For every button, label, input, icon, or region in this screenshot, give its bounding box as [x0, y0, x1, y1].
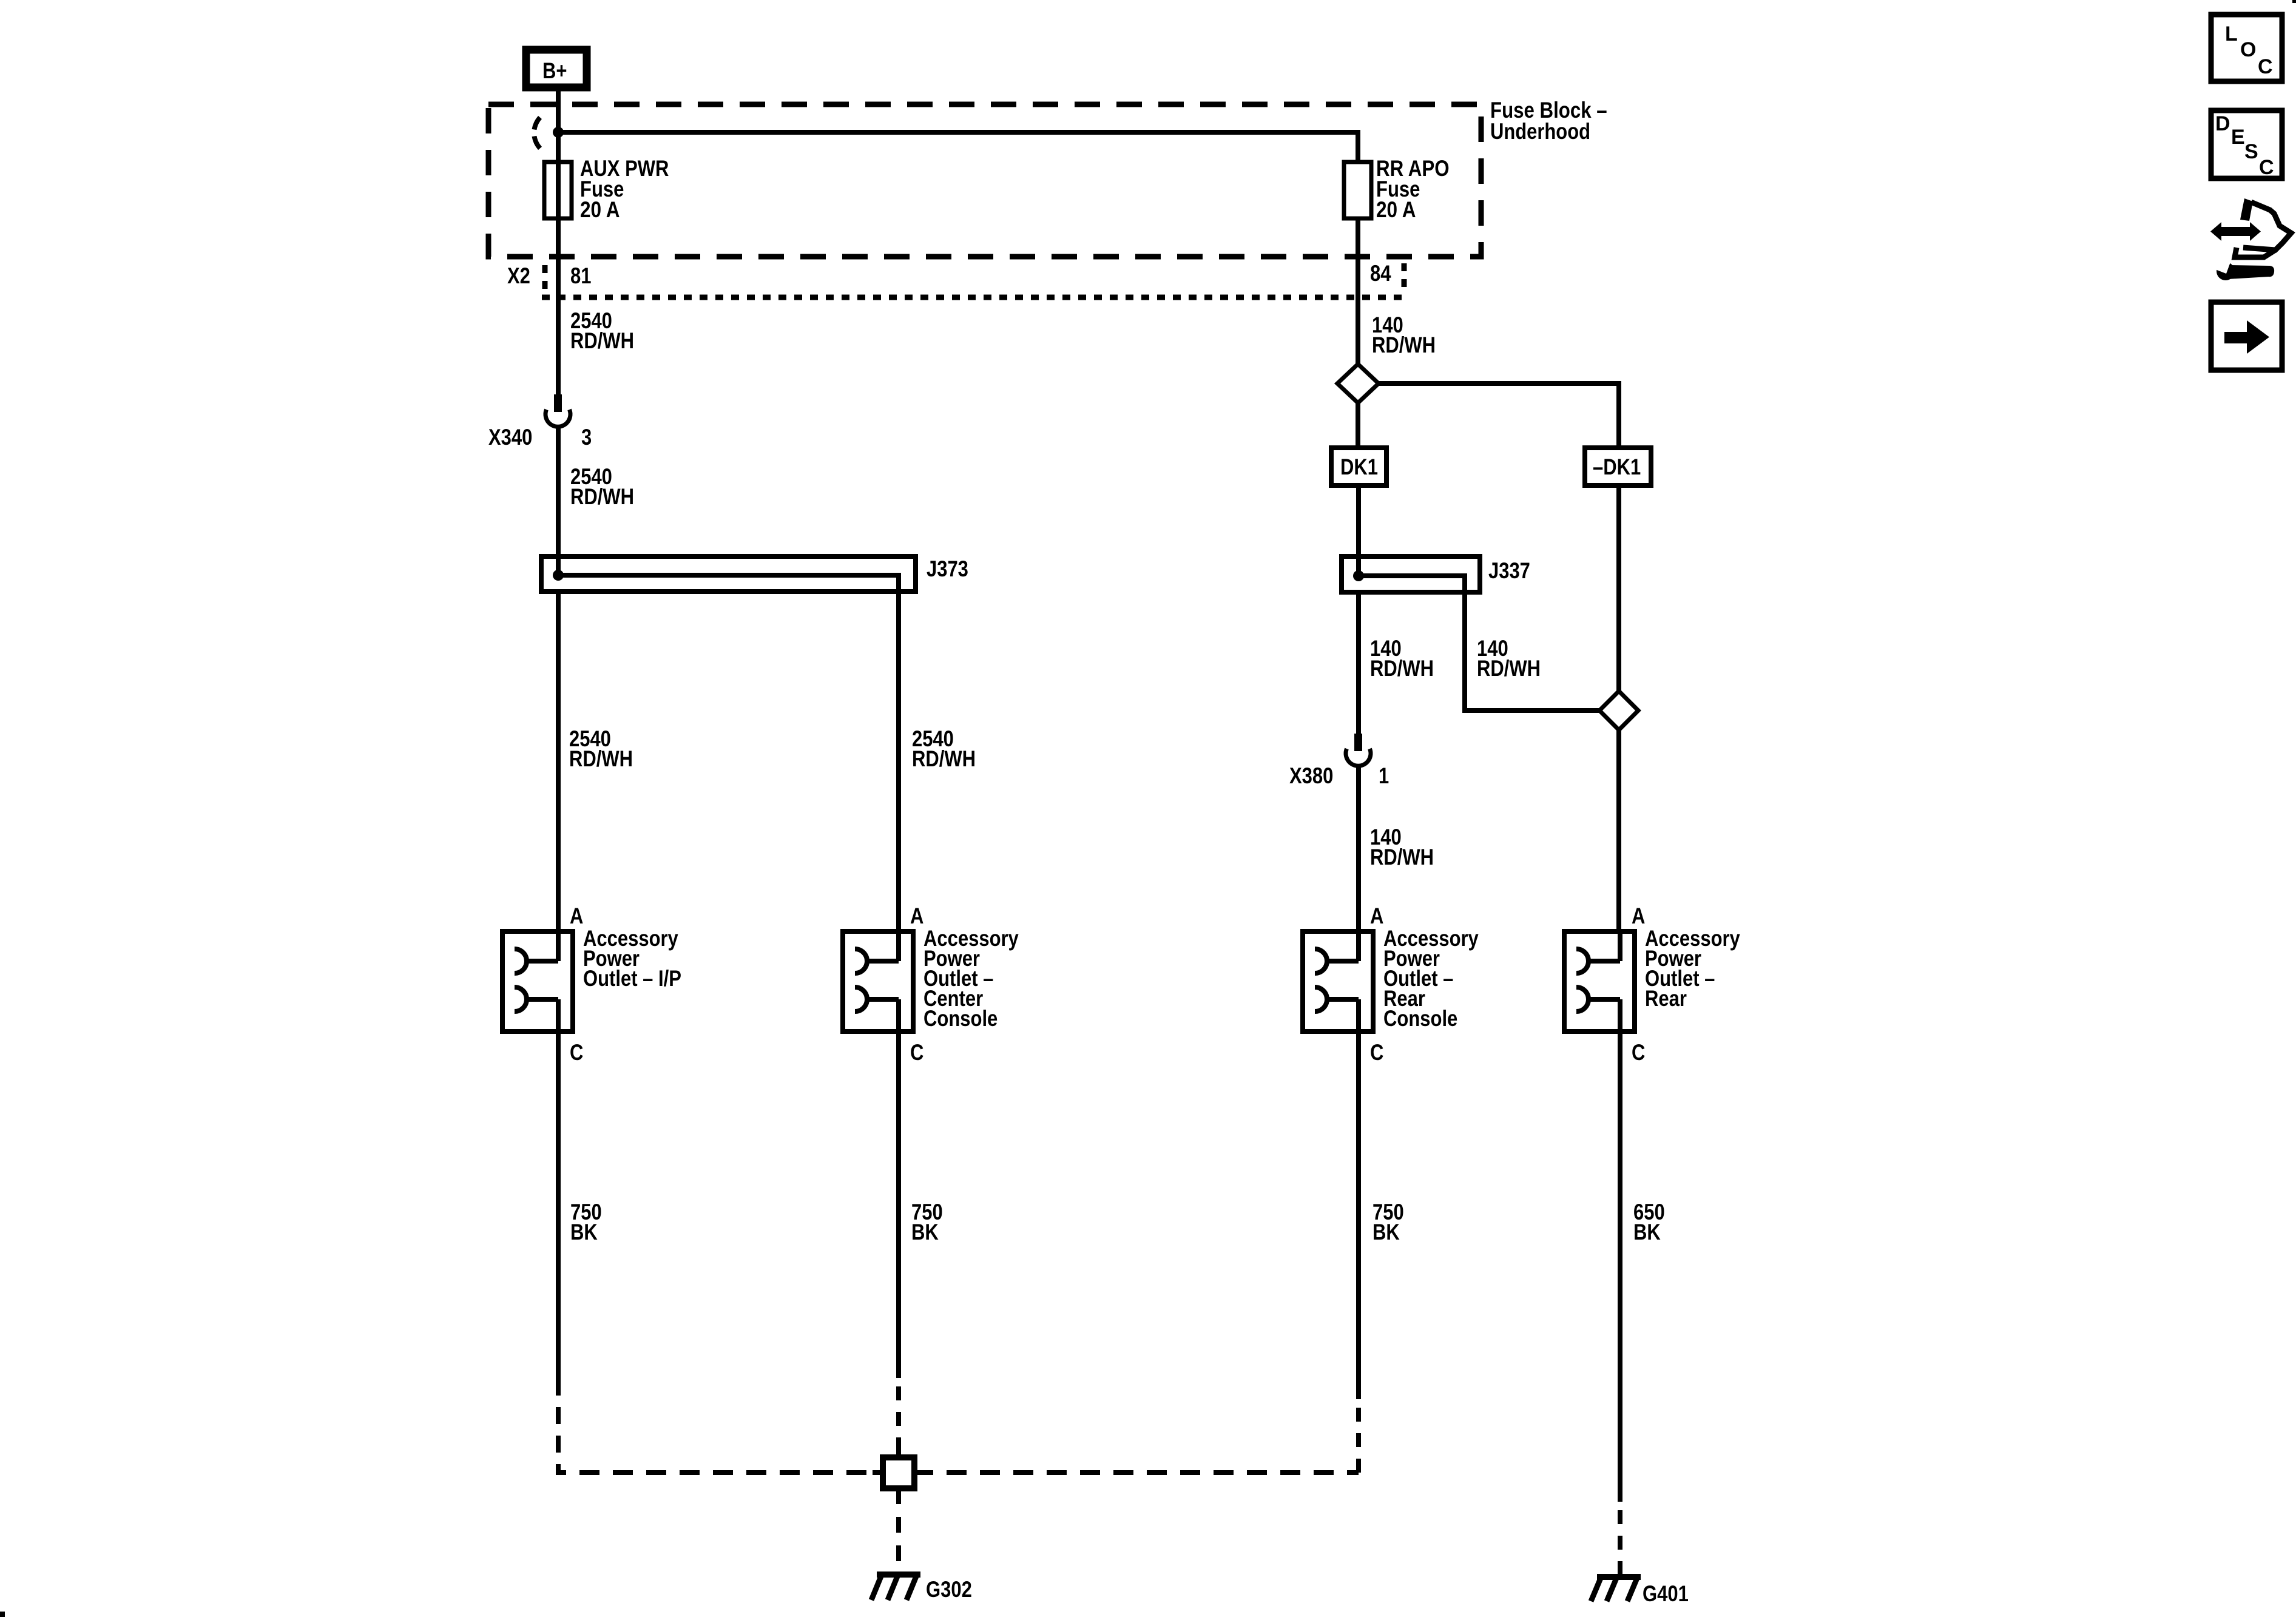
svg-text:A: A [570, 903, 583, 928]
svg-text:C: C [910, 1040, 923, 1065]
svg-text:S: S [2244, 140, 2258, 163]
icon DESC box [2211, 110, 2282, 179]
wire J373 to outlet I/P [556, 592, 561, 931]
svg-text:RD/WH: RD/WH [569, 746, 633, 771]
dashed ground wire I/P [556, 1407, 561, 1475]
accessory power outlet rear console [1303, 931, 1373, 1031]
inline connector X340 pin 3 [488, 394, 592, 450]
svg-text:3: 3 [581, 425, 592, 450]
wire label 140 RD/WH RR APO output [1372, 312, 1436, 357]
wire outlet rear down [1618, 1031, 1622, 1502]
accessory power outlet I/P [502, 931, 573, 1031]
fuse RR APO 20A [1344, 156, 1450, 222]
wire DK1 to J337 [1356, 485, 1361, 576]
svg-text:1: 1 [1379, 763, 1389, 788]
svg-text:Outlet – I/P: Outlet – I/P [583, 966, 681, 991]
wire outlet center console down [896, 1031, 901, 1378]
svg-text:Rear: Rear [1645, 986, 1687, 1011]
ground G302 [871, 1575, 972, 1602]
svg-text:C: C [2258, 55, 2273, 78]
svg-text:BK: BK [1633, 1220, 1661, 1244]
dashed ground wire rear console [1356, 1408, 1361, 1473]
svg-text:X2: X2 [507, 263, 530, 288]
wire rear diamond to outlet rear [1616, 730, 1621, 931]
svg-text:C: C [570, 1040, 583, 1065]
splice pack J373 [541, 556, 968, 931]
wire diamond to -DK1 branch [1379, 383, 1619, 448]
svg-text:Console: Console [923, 1006, 998, 1031]
svg-text:BK: BK [911, 1220, 939, 1244]
wire B+ to AUX PWR fuse [556, 87, 561, 218]
svg-text:L: L [2225, 22, 2238, 46]
svg-text:BK: BK [1373, 1220, 1400, 1244]
accessory power outlet center console [843, 931, 913, 1031]
svg-text:B+: B+ [542, 58, 567, 83]
svg-text:BK: BK [570, 1220, 598, 1244]
accessory power outlet rear [1564, 931, 1635, 1031]
wire label 140 RD/WH diamond branch [1477, 636, 1541, 681]
svg-text:D: D [2215, 112, 2230, 135]
B+ battery feed box [526, 50, 587, 87]
wire label 750 BK center console [911, 1200, 943, 1244]
wire label 750 BK I/P [570, 1200, 602, 1244]
wire J337 to X380 [1356, 592, 1361, 734]
icon adjust hand with arrow and wrench [2210, 198, 2291, 280]
svg-text:RD/WH: RD/WH [570, 328, 634, 353]
wire label 2540 RD/WH fuse output [570, 308, 634, 353]
svg-text:RD/WH: RD/WH [1370, 845, 1434, 869]
svg-text:G401: G401 [1643, 1581, 1689, 1606]
wire RR APO fuse to diamond [1356, 218, 1360, 364]
svg-text:G302: G302 [926, 1577, 972, 1602]
junction dot B+ bus [553, 127, 564, 138]
svg-text:20 A: 20 A [1376, 197, 1416, 222]
wire outlet rear console down [1356, 1031, 1361, 1399]
svg-text:–DK1: –DK1 [1593, 454, 1641, 479]
svg-text:RD/WH: RD/WH [570, 484, 634, 509]
svg-text:RD/WH: RD/WH [1370, 656, 1434, 681]
wire label 2540 RD/WH below X340 [570, 464, 634, 509]
dashed wire square to G302 [896, 1488, 901, 1573]
wire -DK1 to rear diamond [1616, 485, 1621, 691]
svg-text:A: A [1370, 903, 1383, 928]
dashed ground bus [579, 1470, 1359, 1475]
svg-text:A: A [1632, 903, 1645, 928]
outlet I/P label [583, 926, 681, 991]
svg-text:84: 84 [1370, 261, 1391, 286]
wire X340 to J373 [556, 425, 561, 575]
connector X2 dotted line [542, 263, 1404, 297]
svg-text:20 A: 20 A [580, 197, 620, 222]
wire label 140 RD/WH below X380 [1370, 825, 1434, 869]
current loop symbol at bus tap [535, 118, 541, 130]
svg-text:Console: Console [1383, 1006, 1457, 1031]
svg-text:A: A [910, 903, 923, 928]
wire outlet I/P down [556, 1031, 561, 1396]
splice diamond rear [1599, 691, 1638, 730]
svg-text:X340: X340 [488, 425, 532, 450]
ground splice square [883, 1457, 914, 1488]
icon forward arrow box [2211, 302, 2282, 370]
outlet center console label [923, 926, 1019, 1031]
svg-text:RD/WH: RD/WH [912, 746, 976, 771]
Fuse Block - Underhood label [1490, 98, 1607, 144]
wire label 2540 RD/WH center console branch [912, 726, 976, 771]
wire label 650 BK rear [1633, 1200, 1665, 1244]
inline connector X380 pin 1 [1289, 734, 1389, 788]
page corner mark bottom left [0, 1612, 5, 1617]
svg-text:C: C [1632, 1040, 1645, 1065]
svg-text:C: C [2259, 156, 2274, 179]
page corner mark top right [2292, 0, 2296, 3]
svg-text:X380: X380 [1289, 763, 1333, 788]
svg-text:C: C [1370, 1040, 1383, 1065]
wire diamond to DK1 [1356, 403, 1360, 448]
svg-text:E: E [2231, 126, 2245, 149]
wire AUX PWR fuse to X340 [556, 218, 561, 394]
wire label 2540 RD/WH I/P branch [569, 726, 633, 771]
icon LOC box [2211, 15, 2282, 81]
wire X380 to outlet rear console [1356, 764, 1361, 931]
net tag DK1 [1331, 448, 1386, 485]
splice pack J337 [1342, 556, 1599, 711]
outlet rear label [1645, 926, 1740, 1011]
net tag -DK1 [1585, 448, 1651, 485]
svg-text:81: 81 [570, 263, 592, 288]
dashed ground wire center console [896, 1386, 901, 1457]
svg-text:J373: J373 [927, 556, 968, 581]
svg-text:J337: J337 [1488, 558, 1530, 583]
svg-text:RD/WH: RD/WH [1477, 656, 1541, 681]
fuse AUX PWR 20A [544, 156, 669, 222]
fuse block underhood dashed box [488, 104, 1481, 257]
ground G401 [1591, 1577, 1689, 1606]
svg-text:DK1: DK1 [1340, 454, 1378, 479]
svg-text:Underhood: Underhood [1490, 119, 1590, 144]
wire label 750 BK rear console [1373, 1200, 1404, 1244]
dashed ground wire rear [1618, 1510, 1622, 1574]
svg-text:O: O [2240, 38, 2256, 61]
svg-text:RD/WH: RD/WH [1372, 333, 1436, 357]
outlet rear console label [1383, 926, 1479, 1031]
splice diamond DK1 tap [1337, 364, 1379, 403]
bus wire to RR APO fuse [558, 132, 1358, 162]
wire label 140 RD/WH rear console branch [1370, 636, 1434, 681]
